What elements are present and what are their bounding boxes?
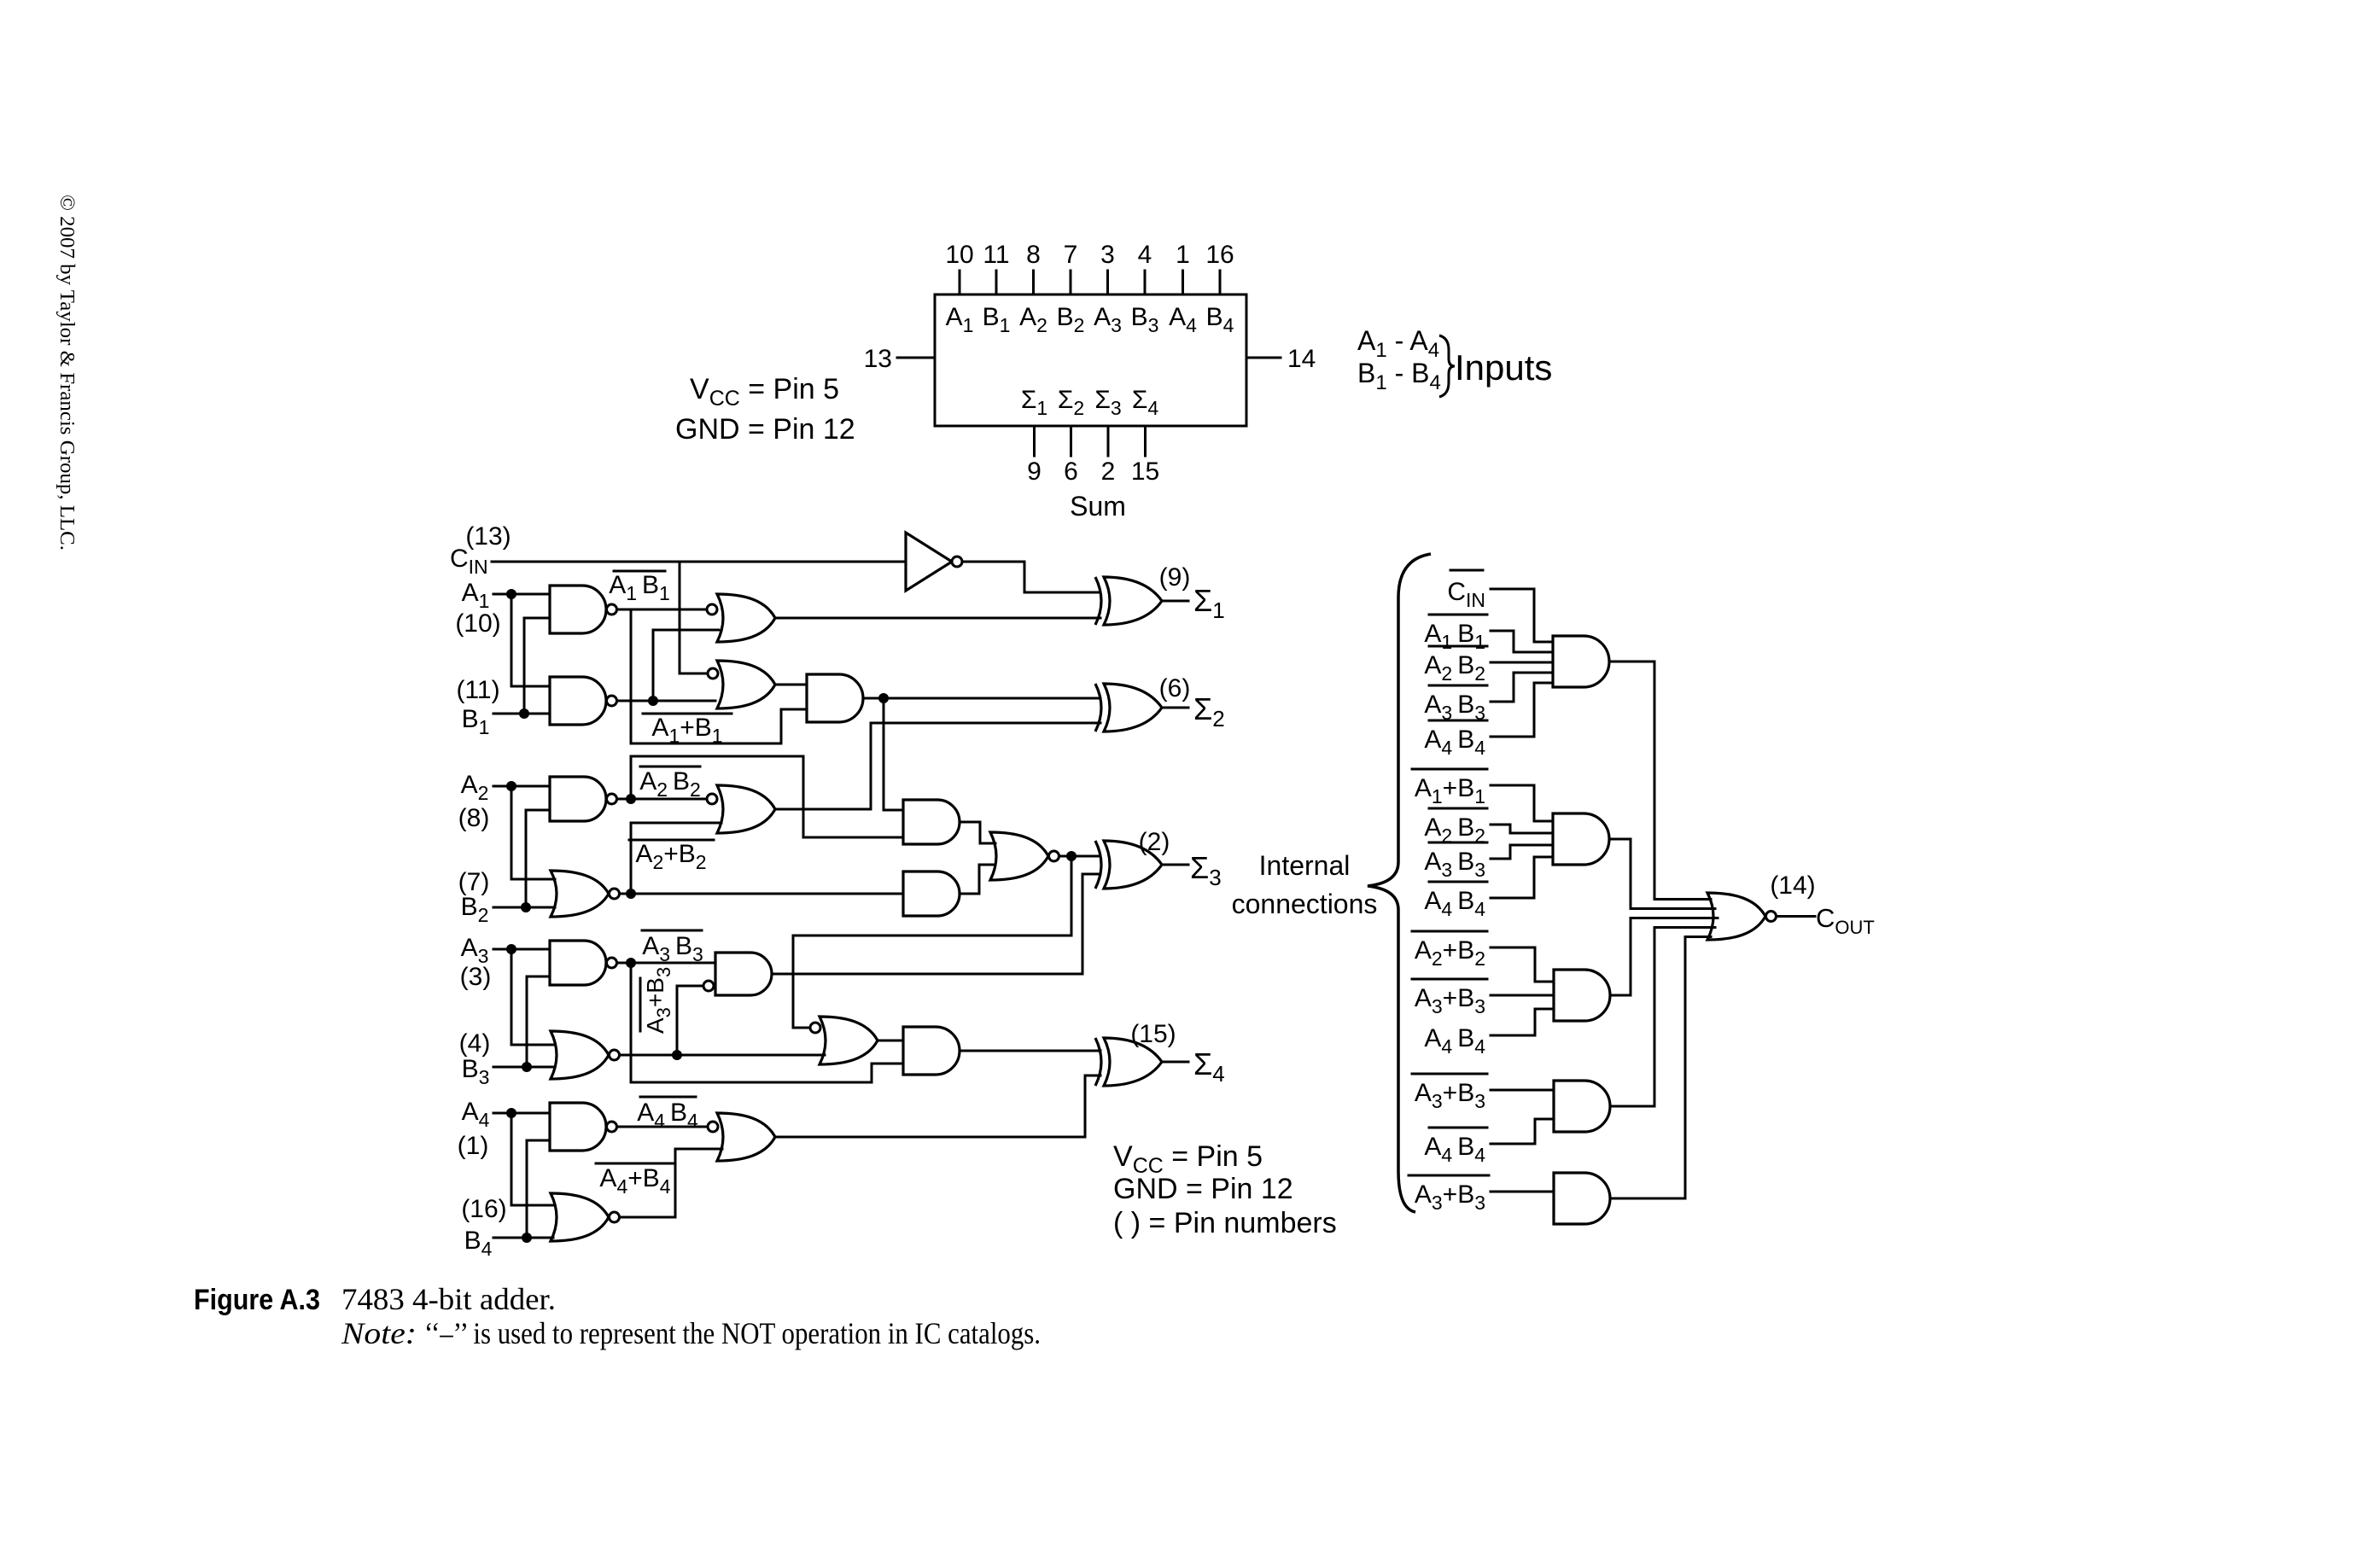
svg-text:(11): (11)	[456, 676, 499, 704]
pin stub bottom pin 2	[1107, 426, 1110, 456]
wire stub A2B2 g1	[1491, 662, 1553, 664]
svg-text:(14): (14)	[1770, 871, 1815, 900]
wire NAND G6 output to OR G9	[617, 798, 708, 801]
pin stub top pin 10	[959, 271, 961, 294]
junction A2	[506, 781, 516, 791]
wire AND G20 output to NOR G25	[1609, 662, 1711, 900]
or gate G9 (bubbled input, sum2 half)	[717, 785, 775, 833]
pin stub top pin 4	[1144, 271, 1147, 294]
xor gate X1 (Sigma1)	[1095, 577, 1101, 625]
wire NAND G12 output to AND G15	[617, 962, 716, 965]
wire AND G23 output to NOR G25	[1610, 928, 1715, 1107]
wire stub A3+B3 g3	[1491, 994, 1554, 997]
svg-text:2: 2	[1101, 458, 1116, 486]
wire NAND G1 output to OR G3	[617, 609, 708, 611]
wire OR G9 output to XOR S2 lower	[775, 723, 1100, 809]
wire XOR X4 output	[1162, 1061, 1188, 1064]
net label A3+B3-bar (g3) overline	[1412, 978, 1487, 981]
wire AND G15 output to XOR S3 lower	[772, 874, 1100, 974]
svg-text:(2): (2)	[1139, 828, 1170, 856]
wire XOR X3 output	[1162, 864, 1188, 866]
wire carry1 down to AND G8	[884, 698, 903, 810]
nand gate G6 (A2 B2)	[550, 777, 606, 821]
wire A3 input	[493, 948, 550, 951]
net label A3B3-bar (g1) overline	[1429, 685, 1487, 687]
wire stub A3+B3 g4	[1491, 1089, 1554, 1092]
wire NAND G2 output	[617, 700, 716, 702]
wire NOR G11 output to XOR S3	[1059, 855, 1100, 858]
svg-text:11: 11	[983, 241, 1009, 269]
brace internal connections	[1368, 554, 1431, 1212]
label A2B2 overline	[640, 766, 700, 768]
label A2+B2 overline	[629, 839, 714, 842]
xor gate X3 (Sigma3)	[1095, 841, 1101, 889]
nand gate G1 (A1 B1)	[550, 586, 606, 633]
svg-text:16: 16	[1205, 241, 1234, 269]
wire stub A2B2 g2	[1491, 825, 1553, 833]
wire OR G4 output to AND G5	[775, 684, 807, 686]
wire stub A3B3 g2	[1491, 845, 1553, 859]
net label A3+B3-bar (g5) overline	[1409, 1175, 1489, 1177]
svg-text:(10): (10)	[455, 609, 500, 638]
wire A3 branch to NOR G13	[511, 949, 555, 1045]
xor gate X4 (Sigma4)	[1095, 1038, 1101, 1086]
and gate G24 (1-input)	[1554, 1173, 1610, 1224]
label A1B1 overline	[614, 570, 665, 573]
IC package 7483 outline	[935, 294, 1246, 426]
svg-text:15: 15	[1131, 458, 1159, 486]
svg-text:© 2007 by Taylor & Francis Gro: © 2007 by Taylor & Francis Group, LLC.	[55, 195, 78, 551]
wire B1 input	[493, 713, 550, 715]
wire AND G16 output to XOR S4	[960, 1050, 1100, 1052]
net label CIN-bar overline	[1450, 569, 1483, 572]
svg-text:connections: connections	[1232, 889, 1378, 919]
wire OR G3 output to XOR S1	[775, 617, 1100, 620]
wire B3 branch to NAND G12	[527, 976, 550, 1067]
pin stub top pin 3	[1106, 271, 1109, 294]
svg-text:GND = Pin 12: GND = Pin 12	[675, 413, 855, 446]
wire A3B3 down over to AND G16	[631, 963, 903, 1082]
wire B2 branch to NAND G6	[526, 810, 550, 907]
junction carry1 output	[878, 693, 889, 703]
wire A1+B1 up to OR G3 lower input	[653, 630, 719, 701]
wire NOR G13 output to OR G14	[620, 1054, 826, 1057]
net label A4B4-bar (g2) overline	[1429, 881, 1487, 883]
wire AND G8 output to NOR G11	[960, 822, 995, 843]
junction A3+B3 output	[672, 1050, 682, 1060]
nor gate G13 (A3+B3)	[551, 1031, 609, 1079]
and gate G16 (sum4 half)	[903, 1027, 960, 1075]
svg-text:(6): (6)	[1159, 674, 1191, 702]
wire stub A4B4 g1	[1491, 683, 1553, 737]
svg-text:Internal: Internal	[1259, 850, 1351, 881]
wire A1 branch to NAND2	[511, 594, 550, 686]
svg-text:3: 3	[1100, 241, 1115, 269]
svg-text:‘‘–’’ is used to represent the: ‘‘–’’ is used to represent the NOT opera…	[424, 1316, 1041, 1350]
wire stub A1B1 g1	[1491, 631, 1553, 652]
wire stub A3B3 g1	[1491, 673, 1553, 702]
and gate G22 (3-input)	[1554, 970, 1610, 1021]
pin stub bottom pin 9	[1033, 426, 1036, 456]
svg-text:1: 1	[1176, 241, 1190, 269]
wire AND G22 output to NOR G25	[1610, 918, 1718, 996]
pin stub top pin 11	[995, 271, 998, 294]
inverter U1 on CIN	[906, 533, 952, 591]
junction B4	[522, 1233, 532, 1243]
svg-text:( ) = Pin numbers: ( ) = Pin numbers	[1113, 1207, 1337, 1239]
svg-text:14: 14	[1287, 345, 1316, 373]
wire OR G14 output to AND G16	[878, 1040, 903, 1042]
svg-text:(1): (1)	[458, 1132, 489, 1160]
svg-text:(4): (4)	[459, 1029, 491, 1058]
svg-text:(8): (8)	[458, 804, 490, 832]
nand gate G12 (A3 B3)	[550, 941, 606, 985]
label A4B4 overline	[640, 1096, 696, 1099]
svg-text:9: 9	[1027, 458, 1042, 486]
nand gate G2 (A1+B1)	[550, 677, 606, 725]
wire stub A3+B3 g5	[1491, 1191, 1554, 1193]
wire stub A4B4 g3	[1491, 1009, 1554, 1035]
pin stub right pin 14	[1246, 357, 1281, 359]
or gate G4 (bubbled input, carry1)	[717, 661, 775, 708]
wire OR G19 output to XOR S4 lower	[775, 1075, 1100, 1137]
svg-text:(3): (3)	[460, 963, 492, 991]
junction B1	[519, 708, 529, 719]
wire A1 input	[493, 593, 550, 596]
net label A1B1-bar (g1) overline	[1429, 614, 1487, 616]
or gate G14 (bubbled input, carry3)	[820, 1017, 878, 1064]
wire NAND G17 output to OR G19	[617, 1126, 709, 1128]
wire AND G24 output to NOR G25	[1610, 937, 1711, 1199]
wire AND G21 output to NOR G25	[1609, 839, 1715, 909]
wire stub A1+B1 g2	[1491, 785, 1553, 821]
wire A2 branch to NOR G7	[511, 786, 555, 879]
wire B3 input	[493, 1066, 555, 1069]
wire carry2 down-left to OR G14	[793, 856, 1071, 1028]
wire A3+B3 up to AND G15 bubbled input	[677, 986, 703, 1055]
junction A1	[506, 589, 516, 599]
pin stub top pin 8	[1032, 271, 1035, 294]
junction A3B3 output	[626, 958, 636, 968]
and gate G20 (5-input)	[1553, 636, 1609, 687]
junction B2	[521, 902, 531, 912]
nor gate G11 (carry2)	[990, 832, 1048, 880]
pin stub top pin 1	[1182, 271, 1184, 294]
wire XOR X2 output	[1162, 707, 1188, 709]
wire B4 input	[493, 1237, 553, 1239]
net label A3+B3-bar (g4) overline	[1412, 1073, 1487, 1075]
svg-text:Figure A.3: Figure A.3	[194, 1284, 320, 1316]
svg-text:8: 8	[1026, 241, 1041, 269]
wire A2B2 up over to AND G8	[631, 756, 903, 837]
wire NOR G18 output up to OR G19 lower input	[620, 1149, 723, 1217]
or gate G3 (bubbled input, sum1 half)	[717, 594, 775, 642]
svg-text:10: 10	[945, 241, 973, 269]
wire stub A2+B2 g3	[1491, 947, 1554, 982]
pin stub bottom pin 15	[1144, 426, 1147, 456]
net label A4B4-bar (g4) overline	[1429, 1127, 1487, 1129]
wire A2+B2 up to OR G9 lower input	[631, 823, 721, 894]
and gate G8 (carry2 term1)	[903, 800, 960, 844]
wire A4 input	[493, 1112, 550, 1115]
wire A1B1 drop to rail	[631, 609, 807, 743]
label A3B3 overline	[642, 930, 702, 932]
nor gate G18 (A4+B4)	[551, 1193, 609, 1241]
net label A2B2-bar (g1) overline	[1429, 645, 1487, 648]
svg-text:7: 7	[1064, 241, 1078, 269]
wire stub CIN-bar	[1491, 589, 1553, 642]
junction carry2 output	[1066, 851, 1077, 861]
or gate G19 (bubbled input, sum4 rail)	[717, 1113, 775, 1161]
wire A4 branch to NOR G18	[511, 1113, 555, 1205]
wire inverter output to XOR S1	[962, 562, 1100, 592]
and gate G15 with bubbled input (sum3 half)	[715, 953, 772, 995]
svg-text:Sum: Sum	[1070, 491, 1126, 522]
net label A2B2-bar (g2) overline	[1429, 807, 1487, 810]
label A4+B4 overline	[596, 1163, 674, 1165]
wire AND G10 output to NOR G11	[960, 865, 995, 894]
wire CIN input	[492, 561, 906, 563]
pin stub top pin 7	[1070, 271, 1072, 294]
junction A3	[506, 944, 516, 954]
svg-text:(16): (16)	[461, 1195, 506, 1223]
junction A2B2 output	[626, 794, 636, 804]
svg-text:7483 4-bit adder.: 7483 4-bit adder.	[341, 1282, 556, 1316]
pin stub top pin 16	[1219, 271, 1222, 294]
junction B3	[522, 1062, 532, 1072]
nor gate G7 (A2+B2)	[551, 871, 609, 917]
wire A2 input	[493, 785, 550, 788]
svg-text:(13): (13)	[465, 522, 511, 551]
junction A4	[506, 1108, 516, 1118]
wire B4 branch to NAND G17	[527, 1140, 550, 1238]
label A1+B1 overline	[643, 713, 732, 715]
svg-text:4: 4	[1138, 241, 1152, 269]
pin stub bottom pin 6	[1070, 426, 1072, 456]
and gate G23 (2-input)	[1554, 1081, 1610, 1132]
svg-text:13: 13	[864, 345, 892, 373]
svg-text:(9): (9)	[1159, 563, 1191, 592]
and gate G21 (4-input)	[1553, 813, 1609, 865]
and gate G10 (carry2 term2)	[903, 871, 960, 916]
svg-text:GND = Pin 12: GND = Pin 12	[1113, 1173, 1293, 1205]
wire CIN branch down to OR2	[680, 562, 708, 673]
nand gate G17 (A4 B4)	[550, 1103, 606, 1151]
junction NAND G2 output	[648, 696, 658, 706]
svg-text:(15): (15)	[1130, 1020, 1176, 1048]
xor gate X2 (Sigma2)	[1095, 684, 1101, 732]
wire B1 branch to NAND1	[524, 618, 550, 714]
wire stub A4B4 g4	[1491, 1119, 1554, 1144]
wire NOR G7 output to AND G10	[620, 893, 904, 895]
brace for Inputs	[1439, 335, 1455, 397]
net label A1+B1-bar (g2) overline	[1412, 768, 1487, 771]
wire COUT output	[1777, 915, 1816, 918]
svg-text:Note:: Note:	[341, 1316, 417, 1350]
wire XOR X1 output	[1162, 600, 1188, 603]
net label A2+B2-bar (g3) overline	[1412, 930, 1487, 933]
net label A3B3-bar (g2) overline	[1429, 842, 1487, 844]
pin stub left pin 13	[897, 357, 935, 359]
svg-text:Inputs: Inputs	[1455, 347, 1552, 388]
nor gate G25 (COUT)	[1707, 893, 1765, 940]
wire AND G5 output to XOR S2	[863, 697, 1100, 700]
junction A2+B2 output	[626, 889, 636, 899]
wire B2 input	[493, 906, 555, 909]
svg-text:6: 6	[1064, 458, 1078, 486]
wire stub A4B4 g2	[1491, 857, 1553, 898]
and gate G5 (carry1)	[807, 674, 863, 722]
label A3+B3 rotated overline	[639, 978, 642, 1031]
net label A4B4-bar (g1) overline	[1429, 720, 1487, 722]
